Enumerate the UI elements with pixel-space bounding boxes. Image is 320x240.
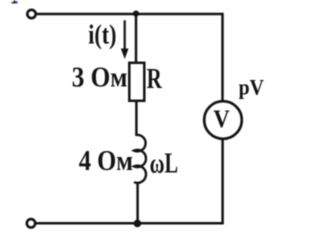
node top junction bbox=[133, 11, 139, 17]
wire top horizontal bbox=[36, 13, 223, 16]
inductor ωL bbox=[134, 135, 146, 183]
wire bottom horizontal bbox=[36, 222, 224, 225]
node bottom junction bbox=[134, 220, 142, 228]
current arrow i(t) bbox=[121, 20, 129, 59]
wire middle branch lower bbox=[136, 182, 139, 224]
stray mark bbox=[11, 0, 17, 4]
svg-text:ωL: ωL bbox=[150, 149, 179, 180]
wire right lower vertical bbox=[221, 140, 224, 224]
resistor R bbox=[129, 63, 144, 101]
wire right upper vertical bbox=[221, 13, 224, 101]
svg-text:R: R bbox=[147, 64, 163, 95]
terminal bottom-left bbox=[27, 219, 35, 227]
wire middle branch upper bbox=[135, 13, 138, 62]
svg-text:4 Ом: 4 Ом bbox=[79, 146, 133, 177]
voltmeter pV bbox=[204, 101, 242, 139]
svg-text:pV: pV bbox=[239, 74, 264, 99]
svg-text:i(t): i(t) bbox=[88, 20, 116, 50]
terminal top-left bbox=[27, 10, 35, 18]
wire middle branch between R and L bbox=[135, 101, 138, 137]
svg-text:3 Ом: 3 Ом bbox=[72, 63, 128, 94]
svg-text:V: V bbox=[213, 106, 229, 133]
